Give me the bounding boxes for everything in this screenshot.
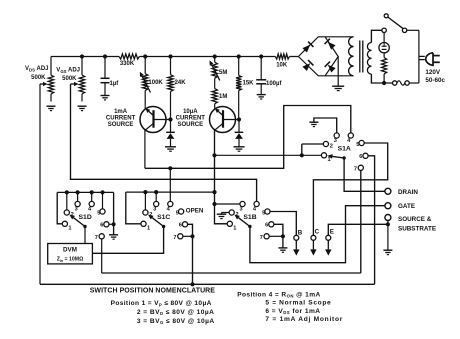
rotary switch S1D contacts (62, 221, 67, 226)
node: S1C-4 tap (168, 166, 172, 170)
svg-text:B: B (298, 229, 303, 236)
svg-text:1: 1 (233, 225, 236, 231)
wire: S1D bus right to c6/ground (113, 192, 115, 234)
svg-text:VGS ADJ: VGS ADJ (56, 68, 80, 74)
wire: S1D c3 drop (77, 192, 79, 201)
transformer T1 primary winding (367, 43, 371, 51)
switch S2 blade (388, 17, 404, 29)
capacitor C1 1uf - leads (104, 57, 106, 79)
svg-text:7: 7 (95, 235, 98, 241)
rotary switch S1C wiper (162, 225, 165, 228)
wire: lamp branch top (383, 30, 385, 42)
wire: 5M rheostat arrow (212, 64, 220, 80)
wire: S1B c1 to Q2 rail (215, 223, 228, 225)
svg-text:S1A: S1A (338, 146, 351, 153)
svg-text:500K: 500K (31, 75, 46, 81)
terminal DRAIN (385, 188, 391, 194)
wire: S1D c4 drop (91, 192, 93, 201)
wire: S1D bus to c1 (57, 192, 62, 223)
resistor R7 1M - element (212, 89, 217, 104)
wire: S1C c6 to drop (187, 224, 192, 284)
node: S&S junction (386, 222, 390, 226)
svg-text:Position 4 = RON @ 1mA: Position 4 = RON @ 1mA (237, 291, 320, 298)
wire: S1D c6 lead (109, 223, 114, 225)
wire: primary return to fuse (392, 82, 394, 84)
plug P1 120V (426, 53, 433, 66)
svg-text:120V: 120V (425, 69, 441, 76)
wire: S1D c2 drop (66, 192, 68, 210)
svg-text:6: 6 (265, 223, 268, 229)
rotary switch S1B wiper (248, 225, 251, 228)
switch S2 blade end (384, 14, 388, 18)
wire: Q1 collector rail to S1A-4 and S1C-4 (145, 106, 351, 169)
ground (under VDS ADJ pot) (47, 105, 56, 107)
wire: gate bus bottom (0, 0, 1, 1)
wire: S1B c2 to ground (222, 212, 230, 214)
ground (under CR2) (234, 146, 245, 148)
wire: S1B c6 to ground (274, 224, 283, 248)
potentiometer R1 VDS ADJ 500K - element (48, 75, 53, 94)
svg-text:1µf: 1µf (110, 81, 120, 87)
resistor R5 24K - element (168, 75, 173, 92)
svg-text:5: 5 (97, 211, 100, 217)
node: S1A c2 joins c1 rail (300, 153, 304, 157)
wire: S1B c3 to Q2 rail (215, 203, 240, 205)
potentiometer R2 VGS ADJ 500K - leads (81, 57, 83, 76)
svg-text:6: 6 (100, 223, 103, 229)
wire: bridge AC bottom to transformer (325, 75, 353, 77)
svg-text:330K: 330K (120, 61, 135, 67)
svg-text:OPEN: OPEN (186, 207, 204, 214)
ground (bridge) (332, 85, 344, 87)
svg-text:1: 1 (147, 225, 150, 231)
ground (S1D c6) (109, 234, 118, 236)
svg-text:VDS ADJ: VDS ADJ (25, 66, 48, 72)
transistor Q1 1mA current source (140, 107, 166, 133)
wire: primary bottom lead (371, 74, 392, 83)
wire: S1C c3 drop (155, 192, 157, 202)
wire: VDS ADJ wiper arrow (40, 83, 43, 85)
rotary switch S1A wiper (342, 156, 345, 159)
svg-text:50-60c: 50-60c (425, 77, 445, 84)
potentiometer R6 5M - lead (214, 57, 216, 63)
svg-text:5M: 5M (219, 70, 227, 76)
rotary switch S1D wiper (83, 225, 86, 228)
svg-text:1M: 1M (219, 94, 227, 100)
resistor R10 (lamp ballast) - lead (383, 53, 385, 58)
rotary switch S1C contacts (141, 221, 146, 226)
svg-text:E: E (330, 229, 334, 236)
svg-text:2 = BVD ≤ 80V @ 10µA: 2 = BVD ≤ 80V @ 10µA (137, 309, 214, 316)
wire: S1A c2 lead (302, 143, 324, 145)
svg-text:1mA: 1mA (114, 109, 128, 115)
wire: S1D c7 down to monitor bus (101, 239, 103, 273)
diode CR5 (lower-left arm) (302, 63, 310, 71)
wire: bridge negative to ground (337, 57, 339, 87)
wire: VDS wiper to bottom bus (left long vertical) (39, 84, 41, 284)
svg-text:1: 1 (328, 157, 331, 163)
diode CR1 (Q1 base clamp) (166, 131, 175, 133)
svg-text:3: 3 (153, 207, 156, 213)
diode CR6 (lower-right arm) (328, 65, 336, 73)
wire: S1A c1-c2 rail to Q2 collector (216, 154, 321, 156)
diode CR2 (Q2 base clamp) (235, 131, 244, 133)
svg-text:SOURCE: SOURCE (108, 122, 134, 128)
switch S2 contact a (382, 28, 386, 32)
wire: S1C c2 drop (144, 192, 146, 210)
wire: Q1 emitter lead (144, 106, 146, 109)
capacitor C2 100uf - leads (260, 57, 262, 80)
resistor R10 (lamp ballast) (382, 58, 387, 75)
svg-text:24K: 24K (175, 80, 187, 86)
fuse F1 (393, 81, 397, 85)
node B (base test point) (294, 235, 299, 240)
wire: S&S terminal to ground (387, 221, 389, 251)
svg-text:3: 3 (75, 207, 78, 213)
wire: S1C bus (126, 191, 215, 193)
wire: S2 to line cord (407, 29, 419, 31)
svg-text:SUBSTRATE: SUBSTRATE (398, 226, 436, 233)
potentiometer R4 100K - leads (144, 57, 146, 74)
ground (under C2) (257, 94, 266, 96)
node: Q2 base junction (237, 117, 241, 121)
svg-text:SWITCH POSITION NOMENCLATURE: SWITCH POSITION NOMENCLATURE (90, 288, 216, 295)
node C (collector test point) (311, 235, 316, 240)
wire: 1M to Q2 emitter (214, 104, 216, 109)
wire: CR1 to ground (170, 139, 172, 147)
wire: cord to plug (419, 55, 425, 57)
resistor R8 15K - element (236, 75, 241, 90)
wire: lamp branch bottom (383, 74, 385, 83)
bridge rectifier CR3-CR6 - diamond (298, 37, 338, 76)
svg-text:SOURCE &: SOURCE & (398, 216, 432, 223)
wire: S1A c6 down right side (368, 156, 375, 284)
ground (under VGS ADJ pot) (78, 105, 87, 107)
lamp DS1 (neon pilot light) (379, 43, 389, 53)
svg-text:5: 5 (176, 211, 179, 217)
node: S1D c6 junction (112, 222, 116, 226)
node: lamp branch to primary return (382, 81, 386, 85)
svg-text:DRAIN: DRAIN (398, 189, 418, 196)
wire: VGS ADJ wiper arrow (71, 83, 75, 85)
diode CR3 (upper-left arm) (302, 45, 310, 53)
svg-text:CURRENT: CURRENT (176, 116, 206, 122)
ground (under C1) (101, 95, 110, 97)
svg-text:500K: 500K (62, 76, 77, 82)
wire: S1C bus to c1 (126, 192, 141, 224)
svg-text:SOURCE: SOURCE (177, 122, 203, 128)
wire: S1D bus (57, 191, 113, 193)
ground (S&S terminal) (383, 249, 392, 251)
ground (S1B c6/c7) (278, 247, 287, 249)
resistor R9 10K (275, 54, 289, 59)
wire: S1B c5 to B (270, 212, 297, 236)
node: bus junction dots (80, 54, 84, 58)
resistor R8 15K - leads (238, 57, 240, 76)
diode CR1 - lead (170, 120, 172, 133)
DVM box (48, 244, 93, 264)
svg-text:GATE: GATE (398, 203, 415, 210)
wire: S1B c7 join (269, 235, 283, 237)
svg-text:6 = VDS for 1mA: 6 = VDS for 1mA (265, 308, 320, 315)
wire: bottom bus (VDS line) (40, 283, 375, 285)
potentiometer R4 100K - element (143, 74, 148, 91)
node: S1B c6-c7 junction (281, 234, 285, 238)
diode CR2 - lead (238, 120, 240, 133)
node: rail meets Q2 collector (212, 153, 216, 157)
wire: CR2 to ground (238, 139, 240, 147)
svg-text:3: 3 (334, 138, 337, 144)
capacitor C1 1uf - plates (101, 77, 110, 79)
wire: position-7 monitor bus (102, 272, 361, 274)
ground (under CR1) (165, 146, 176, 148)
terminal SOURCE & SUBSTRATE (385, 215, 391, 221)
svg-text:3 = BVG ≤ 80V @ 10µA: 3 = BVG ≤ 80V @ 10µA (137, 318, 215, 325)
wire: S1A c5 to C-line (313, 143, 387, 235)
potentiometer R2 VGS ADJ 500K - element (79, 75, 84, 94)
svg-text:10K: 10K (276, 62, 288, 68)
switch S2 contact b (402, 28, 406, 32)
capacitor C2 100uf - plates (256, 79, 266, 81)
resistor R5 24K - leads (170, 57, 172, 75)
wire: S1D wiper to DVM (84, 228, 86, 244)
node: S1C c6-c7 junction (190, 234, 194, 238)
wire: S1A c7 down (360, 170, 362, 273)
node E (emitter test point) (326, 235, 331, 240)
terminal GATE (385, 203, 391, 209)
resistor R3 330K (119, 54, 139, 59)
svg-text:15K: 15K (243, 80, 255, 86)
rotary switch S1A contacts (321, 153, 326, 158)
node: S1B c3 junction (212, 202, 216, 206)
wire: S&S to E line (328, 224, 388, 235)
svg-text:100µf: 100µf (266, 81, 282, 87)
diode CR4 (upper-right arm) (328, 42, 336, 50)
wire: 100K rheostat arrow (142, 76, 151, 93)
svg-text:3: 3 (240, 207, 243, 213)
svg-text:5 = Normal Scope: 5 = Normal Scope (265, 299, 331, 306)
node: S1C drop to bottom bus (190, 282, 194, 286)
wire: S1B wiper to GATE (250, 206, 385, 263)
wire: S1D c5 drop (102, 192, 104, 209)
potentiometer R1 VDS ADJ 500K - leads (50, 57, 52, 76)
transistor Q2 10uA current source (210, 107, 236, 133)
svg-text:C: C (315, 229, 320, 236)
svg-text:6: 6 (359, 154, 362, 160)
ground (S1A contact 3) (309, 121, 318, 123)
svg-text:5: 5 (356, 142, 359, 148)
wire: S1C wiper to DVM (92, 228, 163, 253)
svg-text:DVM: DVM (63, 246, 77, 253)
wire: VGS wiper to S1B contact 4 (71, 84, 257, 202)
wire: Q1 collector lead (144, 130, 146, 168)
wire: S1C c7 join (183, 235, 193, 237)
wire: line cord right side (418, 30, 420, 83)
svg-text:CURRENT: CURRENT (106, 116, 136, 122)
svg-text:1: 1 (68, 225, 71, 231)
node: S1C bus dots (143, 190, 147, 194)
svg-text:S1C: S1C (157, 214, 170, 221)
svg-text:2: 2 (330, 144, 333, 150)
wire: 5M to 1M (214, 78, 216, 88)
svg-text:S1B: S1B (243, 214, 256, 221)
node: S1D bus dots (65, 190, 69, 194)
svg-text:7 = 1mA Adj Monitor: 7 = 1mA Adj Monitor (265, 316, 343, 323)
ground (S1B contact 2) (217, 213, 227, 215)
node: Q1 base junction (168, 117, 172, 121)
wire: S1A wiper to DRAIN (344, 160, 385, 192)
potentiometer R6 5M - element (212, 62, 217, 78)
wire: drop to S1C contact 4 (169, 168, 171, 201)
svg-text:6: 6 (179, 223, 182, 229)
svg-text:100K: 100K (148, 80, 163, 86)
rotary switch S1B contacts (227, 221, 232, 226)
wire: S1A contact2 jog (301, 144, 303, 155)
wire: primary top lead (371, 30, 382, 42)
wire: S1A c3 to ground (314, 118, 337, 133)
svg-text:7: 7 (354, 167, 357, 173)
svg-text:10µA: 10µA (183, 109, 198, 115)
wire: main positive bus (top) (51, 56, 119, 58)
svg-text:S1D: S1D (79, 214, 92, 221)
transformer T1 secondary winding (349, 37, 354, 47)
svg-text:7: 7 (260, 235, 263, 241)
wire: Q2 collector lead to switch matrix (215, 130, 228, 224)
svg-text:7: 7 (173, 235, 176, 241)
transformer T1 core (359, 41, 361, 73)
wire: bridge AC top to transformer (325, 36, 353, 38)
svg-text:5: 5 (262, 211, 265, 217)
